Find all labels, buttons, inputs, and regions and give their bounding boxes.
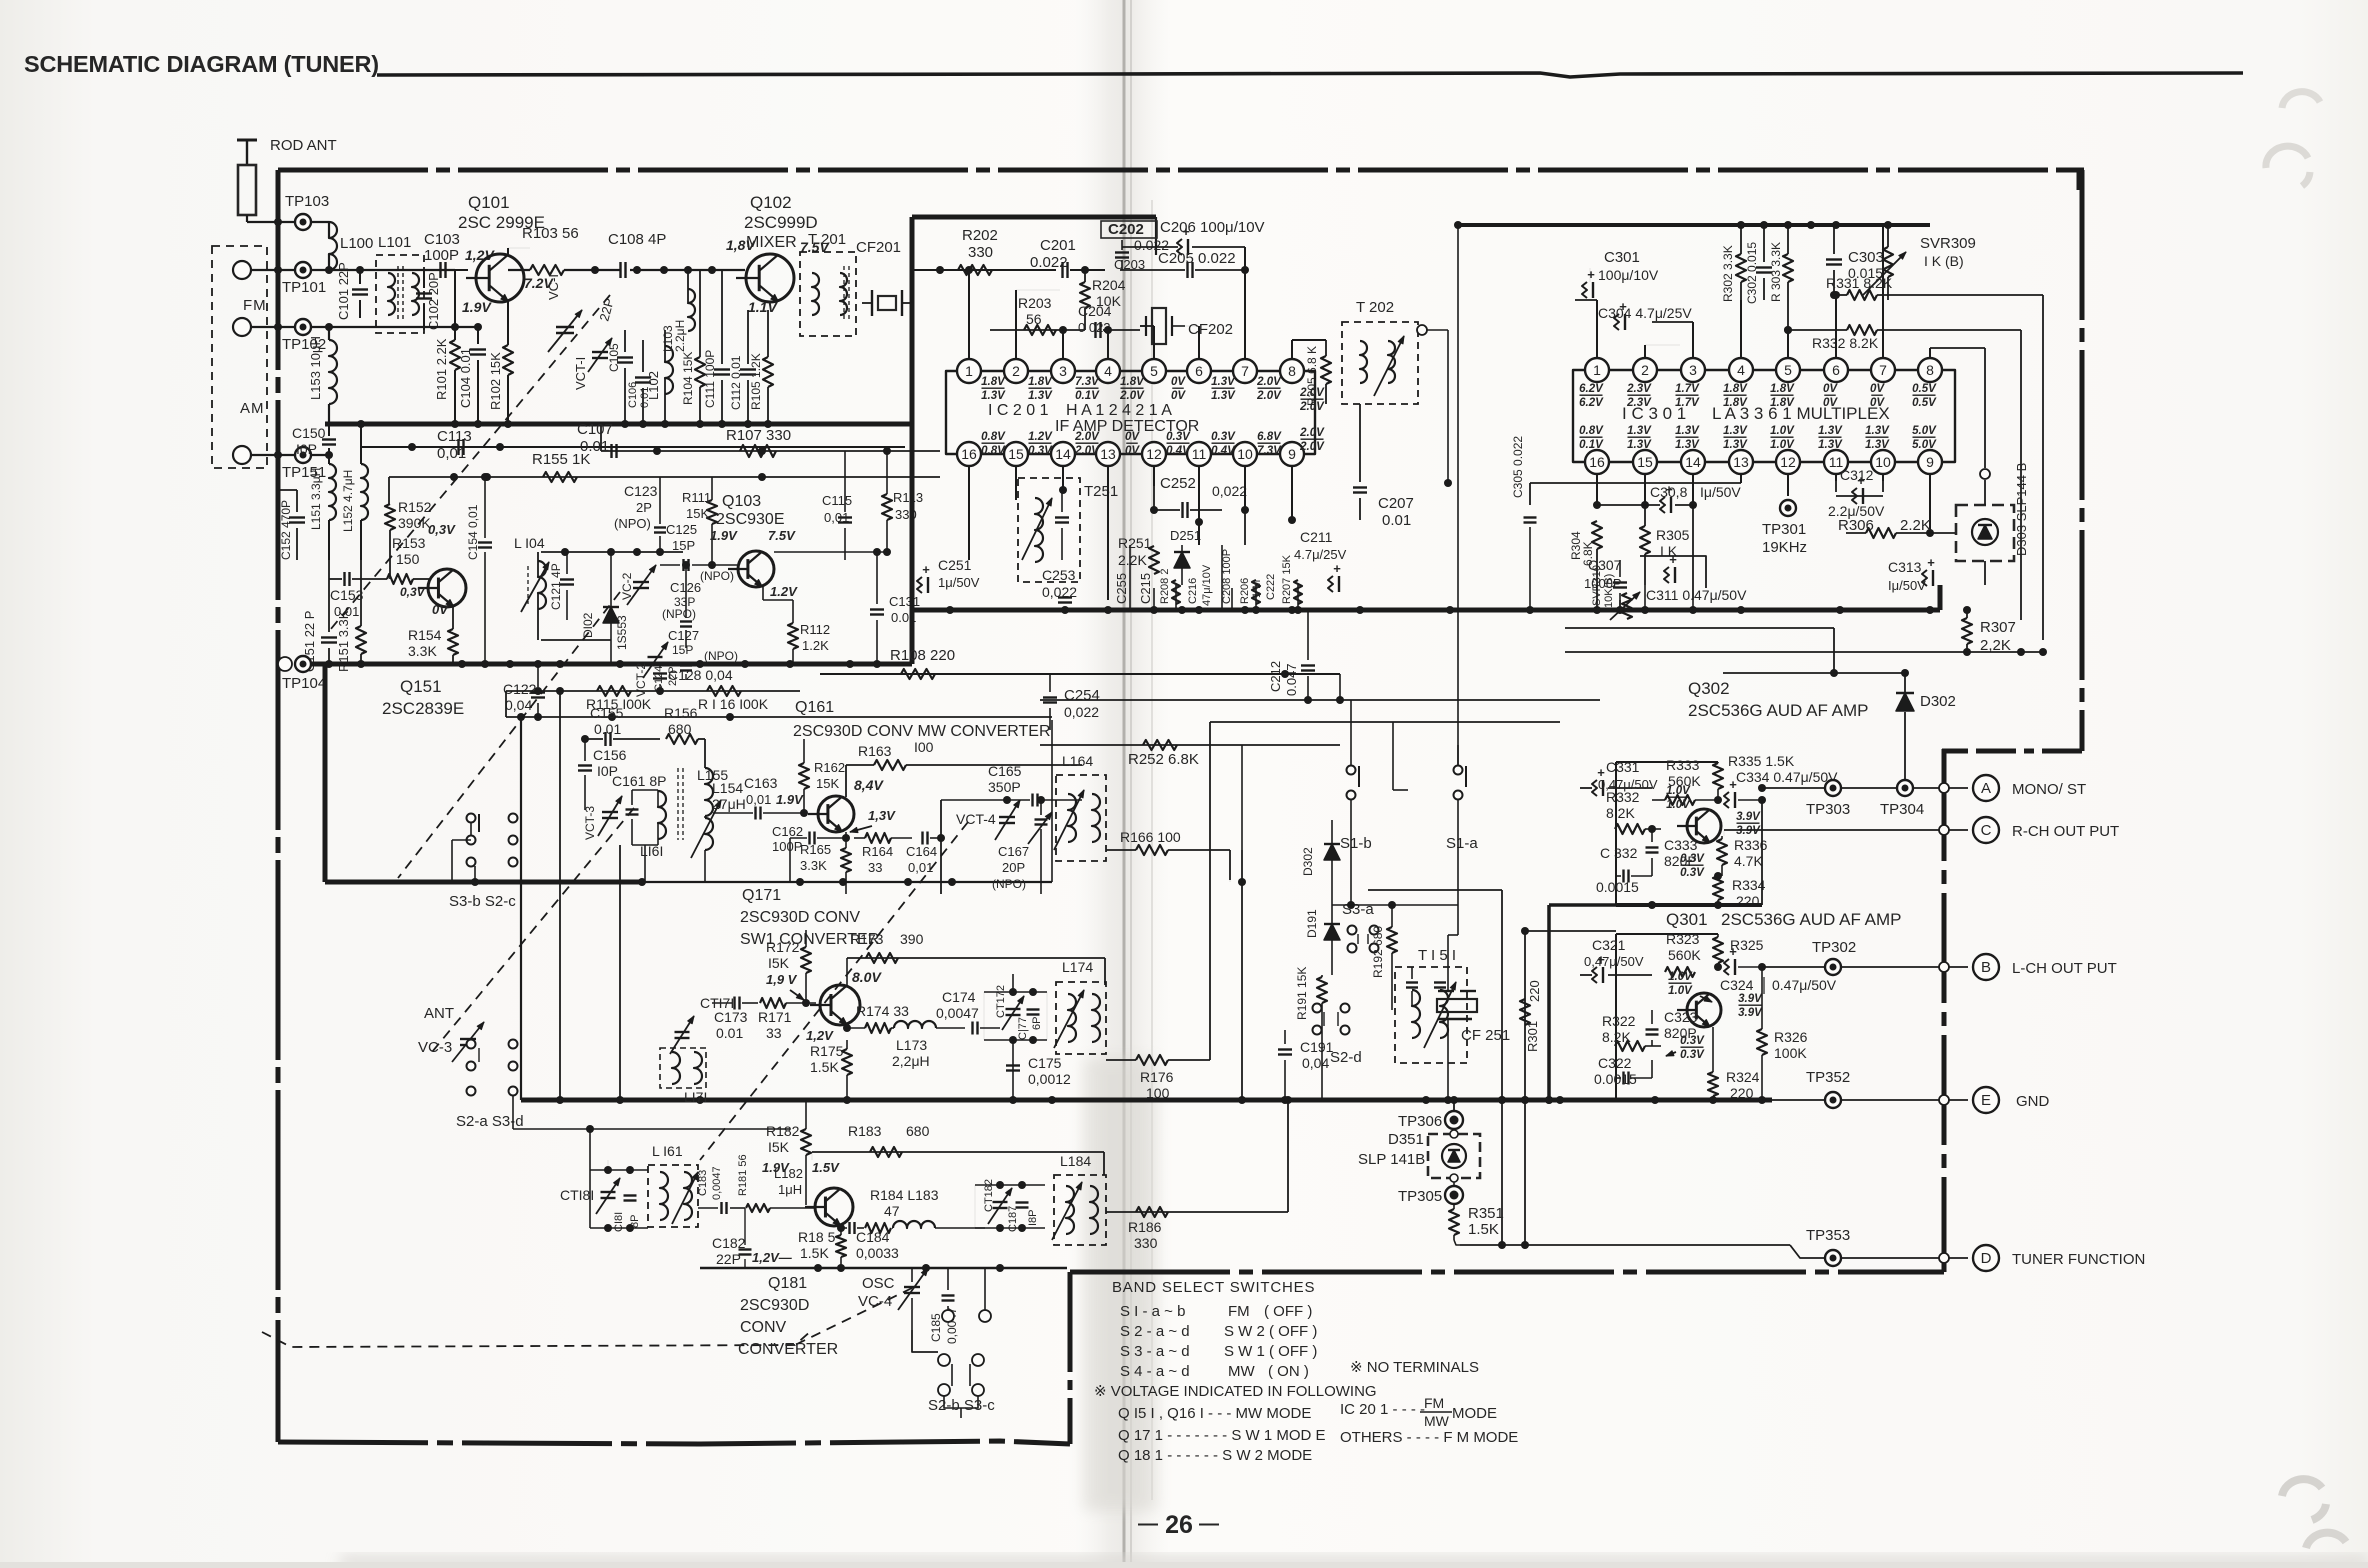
IC201 pin 4 xyxy=(1096,359,1120,383)
svg-text:0.4V: 0.4V xyxy=(1166,445,1191,457)
resistor R307 2.2K xyxy=(1962,618,1972,644)
svg-text:D303 SLP144 B: D303 SLP144 B xyxy=(2014,463,2029,556)
resistor R164 33 xyxy=(865,833,891,843)
wire r202 to c201 xyxy=(1010,269,1056,271)
IC301 pin 2 xyxy=(1633,358,1657,382)
coil L161 xyxy=(658,791,666,839)
IC201 pin 8 xyxy=(1280,359,1304,383)
svg-text:R103 56: R103 56 xyxy=(522,225,579,242)
svg-text:2.0V: 2.0V xyxy=(1299,401,1325,413)
test point TP306 xyxy=(1445,1111,1463,1129)
svg-text:E: E xyxy=(1981,1092,1991,1109)
wire R108 line y674 xyxy=(820,673,1340,675)
T202 coil 2 xyxy=(1388,341,1395,383)
wire C line xyxy=(1724,829,1968,831)
svg-text:R102 15K: R102 15K xyxy=(488,352,503,410)
svg-text:1.5K: 1.5K xyxy=(1468,1221,1499,1238)
svg-text:0,3V: 0,3V xyxy=(400,585,426,599)
capacitor C205 0.022 xyxy=(1186,262,1188,278)
T251 coil xyxy=(1035,498,1043,562)
svg-text:C222: C222 xyxy=(1265,574,1277,600)
transformer L171 dashed box xyxy=(660,1048,706,1088)
trimmer VCT-2 xyxy=(648,656,663,658)
svg-text:6.8V: 6.8V xyxy=(1257,431,1282,443)
capacitor C184 0.0033 xyxy=(848,1222,850,1234)
svg-text:15: 15 xyxy=(1637,454,1653,470)
variable capacitor VC-1 xyxy=(556,326,574,328)
svg-text:LI6I: LI6I xyxy=(640,843,663,859)
resistor R336 4.7K xyxy=(1717,839,1727,865)
svg-text:C303: C303 xyxy=(1848,249,1884,266)
capacitor C312 2.2u/50V xyxy=(1836,495,1883,497)
svg-text:R323: R323 xyxy=(1666,931,1700,947)
svg-text:0,04: 0,04 xyxy=(505,697,532,713)
svg-text:C323: C323 xyxy=(1664,1009,1698,1025)
gang linkage dash horizontal xyxy=(262,1330,812,1347)
trimmer CT171 xyxy=(675,1031,690,1033)
wire q181 emitter down xyxy=(840,1228,842,1232)
capacitor C252 0.022 xyxy=(1181,502,1183,518)
resistor R322 8.2K xyxy=(1615,1041,1645,1051)
svg-text:AM: AM xyxy=(240,400,265,417)
svg-text:0V: 0V xyxy=(1823,397,1838,409)
transformer L164 dashed box xyxy=(1056,775,1106,861)
resistor R192 680 xyxy=(1387,927,1397,953)
svg-text:5: 5 xyxy=(1784,362,1792,378)
svg-text:1.3V: 1.3V xyxy=(1028,390,1053,402)
svg-text:0.3V: 0.3V xyxy=(1680,1035,1705,1047)
svg-text:330: 330 xyxy=(1134,1235,1158,1251)
svg-text:MW: MW xyxy=(1424,1413,1450,1429)
IC301 pin8 wire up xyxy=(1929,348,1931,358)
border right inner vertical x1944 xyxy=(1942,751,1947,1272)
svg-text:L-CH OUT PUT: L-CH OUT PUT xyxy=(2012,960,2117,977)
svg-text:C205 0.022: C205 0.022 xyxy=(1158,250,1236,267)
resistor R305 1K xyxy=(1640,526,1650,554)
IC201 pin 14 xyxy=(1051,442,1075,466)
svg-text:6.2V: 6.2V xyxy=(1579,383,1604,395)
svg-text:1: 1 xyxy=(1593,362,1601,378)
svg-text:1.8V: 1.8V xyxy=(1723,397,1748,409)
svg-text:0,04: 0,04 xyxy=(1302,1055,1329,1071)
svg-text:Q102: Q102 xyxy=(750,193,792,212)
svg-text:R351: R351 xyxy=(1468,1205,1504,1222)
svg-text:100: 100 xyxy=(1146,1085,1170,1101)
capacitor C207 0.01 xyxy=(1353,486,1367,488)
capacitor C321 0.47u/50V xyxy=(1592,967,1597,983)
svg-text:560K: 560K xyxy=(1668,947,1701,963)
svg-text:0.47μ/50V: 0.47μ/50V xyxy=(1772,977,1837,993)
svg-text:2: 2 xyxy=(1641,362,1649,378)
svg-text:C154 0,01: C154 0,01 xyxy=(466,504,480,560)
tank bottom rail xyxy=(541,639,611,641)
L181 primary xyxy=(660,1172,668,1220)
resistor R302 3.3K xyxy=(1736,254,1746,282)
capacitor C181 8P xyxy=(624,1194,637,1196)
svg-text:1,9 V: 1,9 V xyxy=(766,972,798,987)
svg-text:TP306: TP306 xyxy=(1398,1113,1442,1130)
svg-text:※ VOLTAGE INDICATED IN FOLL: ※ VOLTAGE INDICATED IN FOLLOWING xyxy=(1094,1383,1377,1400)
svg-text:R335 1.5K: R335 1.5K xyxy=(1728,753,1795,769)
svg-text:R176: R176 xyxy=(1140,1069,1174,1085)
svg-text:0.8V: 0.8V xyxy=(981,431,1006,443)
svg-text:D191: D191 xyxy=(1305,909,1319,938)
resistor R185 1.5K xyxy=(836,1235,846,1257)
svg-text:C212: C212 xyxy=(1268,661,1283,692)
cluster rails q181 xyxy=(975,1184,1045,1186)
capacitor C161 8P xyxy=(626,808,639,810)
svg-text:7.3V: 7.3V xyxy=(1075,376,1100,388)
resistor R207 15K xyxy=(1294,580,1302,604)
wire y490 left xyxy=(278,489,297,491)
IC201 pin8 wire xyxy=(1291,340,1293,359)
rod antenna xyxy=(237,139,257,142)
wire D351 to TP305 xyxy=(1453,1182,1455,1186)
wire TP103 to L100 xyxy=(312,221,329,223)
capacitor C164 0.01 xyxy=(921,832,923,845)
svg-text:R332 8.2K: R332 8.2K xyxy=(1812,335,1879,351)
svg-text:13: 13 xyxy=(1733,454,1749,470)
L184 primary xyxy=(1066,1186,1074,1234)
transistor Q103 xyxy=(738,551,774,587)
svg-text:+: + xyxy=(1729,944,1737,959)
node x595 xyxy=(591,266,599,274)
svg-text:L152 4.7μH: L152 4.7μH xyxy=(341,470,355,532)
coil L155 xyxy=(705,768,713,816)
capacitor C126 33P xyxy=(680,620,692,622)
diode D191 xyxy=(1324,924,1340,940)
svg-text:27μH: 27μH xyxy=(712,796,746,812)
svg-text:0,022: 0,022 xyxy=(1042,584,1077,600)
transformer T251 dashed box xyxy=(1018,478,1080,582)
crystal filter CF202 xyxy=(1152,308,1166,344)
wire ct181 feed xyxy=(607,1160,609,1170)
svg-text:1 M: 1 M xyxy=(1251,580,1263,598)
switch S3-b xyxy=(467,814,476,823)
svg-text:1,3V: 1,3V xyxy=(868,808,896,823)
svg-text:R207 15K: R207 15K xyxy=(1281,554,1293,604)
T202 output circle xyxy=(1417,325,1427,335)
wire y1152 r183 xyxy=(812,1151,1104,1153)
resistor R104 15K xyxy=(695,357,705,387)
T201 core xyxy=(843,266,845,322)
svg-text:10: 10 xyxy=(1875,454,1891,470)
svg-text:2.3V: 2.3V xyxy=(1626,383,1652,395)
svg-text:C150: C150 xyxy=(292,425,326,441)
svg-text:100μ/10V: 100μ/10V xyxy=(1598,267,1659,283)
svg-text:14: 14 xyxy=(1055,446,1071,462)
wire y477 xyxy=(389,476,940,478)
svg-text:1.9V: 1.9V xyxy=(776,792,804,807)
svg-text:VCT-3: VCT-3 xyxy=(583,806,597,840)
border corner top-right xyxy=(2077,168,2082,190)
svg-text:0.5V: 0.5V xyxy=(1912,397,1937,409)
resistor R163 100 xyxy=(874,760,906,770)
svg-text:C251: C251 xyxy=(938,557,972,573)
svg-text:R184 L183: R184 L183 xyxy=(870,1187,939,1203)
svg-text:1.0V: 1.0V xyxy=(1770,425,1795,437)
svg-text:C106: C106 xyxy=(627,382,639,408)
resistor R102 15K xyxy=(503,345,513,375)
wire x1230 down xyxy=(1229,880,1231,882)
svg-text:0.047: 0.047 xyxy=(1284,663,1299,696)
svg-text:CF202: CF202 xyxy=(1188,321,1233,338)
svg-text:2SC930D CONV MW CONVERTER: 2SC930D CONV MW CONVERTER xyxy=(793,723,1051,740)
resistor R101 2.2K xyxy=(450,340,460,370)
resistor R153 150 xyxy=(387,574,413,584)
resistor R171 33 xyxy=(760,998,786,1008)
svg-text:1.3V: 1.3V xyxy=(1865,425,1890,437)
capacitor C125 15P xyxy=(682,559,684,571)
border step y751 xyxy=(1944,749,2082,754)
diode D251 xyxy=(1174,552,1190,568)
svg-text:2SC930D CONV: 2SC930D CONV xyxy=(740,909,860,926)
svg-text:2SC930D: 2SC930D xyxy=(740,1297,809,1314)
IC301 pin 11 xyxy=(1824,450,1848,474)
resistor R152 390K xyxy=(385,504,395,530)
transformer L174 dashed box xyxy=(1056,982,1106,1054)
svg-text:C165: C165 xyxy=(988,763,1022,779)
svg-text:R111: R111 xyxy=(682,490,711,505)
svg-text:C 332: C 332 xyxy=(1600,845,1638,861)
bus riser x912 xyxy=(910,217,915,664)
bus y1100 left risers xyxy=(520,717,522,1100)
inductor L102 xyxy=(665,346,673,394)
svg-text:C211: C211 xyxy=(1300,529,1333,545)
svg-text:2SC536G AUD AF AMP: 2SC536G AUD AF AMP xyxy=(1688,701,1868,720)
wire x1210 xyxy=(1209,722,1211,1060)
stage frame Q151 xyxy=(323,664,328,882)
resistor R206 1M xyxy=(1252,580,1260,604)
svg-text:390: 390 xyxy=(900,931,924,947)
svg-text:C191: C191 xyxy=(1300,1039,1334,1055)
svg-text:0,01: 0,01 xyxy=(908,860,933,875)
svg-text:CT182: CT182 xyxy=(983,1179,995,1212)
svg-text:1.0V: 1.0V xyxy=(1668,971,1693,983)
svg-text:L174: L174 xyxy=(1062,959,1093,975)
svg-text:R166 100: R166 100 xyxy=(1120,829,1181,845)
capacitor C173 0.01 xyxy=(733,997,735,1010)
svg-text:8: 8 xyxy=(1926,362,1934,378)
capacitor C305 0.022 xyxy=(1524,516,1537,518)
svg-text:I8P: I8P xyxy=(1027,1209,1039,1226)
svg-text:C104 0.01: C104 0.01 xyxy=(458,348,473,408)
svg-text:1.9V: 1.9V xyxy=(462,299,492,315)
resistor R202 330 xyxy=(958,265,992,275)
svg-text:C313: C313 xyxy=(1888,559,1922,575)
svg-text:R206: R206 xyxy=(1239,578,1251,604)
svg-text:22P: 22P xyxy=(716,1251,741,1267)
IC201 pin2 wire up xyxy=(1015,290,1017,359)
svg-text:CT172: CT172 xyxy=(995,985,1007,1018)
capacitor C122 0.04 xyxy=(531,691,545,693)
svg-text:C163: C163 xyxy=(744,775,778,791)
resistor R325 xyxy=(1713,937,1723,963)
wire D303 bottom xyxy=(1984,561,1986,585)
svg-text:C216: C216 xyxy=(1187,578,1199,604)
coil L183 xyxy=(893,1221,935,1228)
svg-text:R191 15K: R191 15K xyxy=(1295,967,1309,1020)
svg-text:6: 6 xyxy=(1195,363,1203,379)
IC301 body xyxy=(1573,370,1955,462)
svg-text:R175: R175 xyxy=(810,1043,844,1059)
wire ct181 to q181 xyxy=(698,1207,718,1209)
svg-text:C30,8: C30,8 xyxy=(1650,484,1688,500)
resistor R154 3.3K xyxy=(448,629,458,655)
capacitor C313 1u/50V xyxy=(1922,570,1927,586)
svg-text:1.2V: 1.2V xyxy=(770,584,798,599)
transistor Q102 MIXER xyxy=(746,254,794,302)
IC201 pin10 wire down xyxy=(1244,466,1246,510)
svg-text:0V: 0V xyxy=(1870,383,1885,395)
svg-text:0V: 0V xyxy=(1125,445,1140,457)
capacitor C152 470P xyxy=(289,516,305,518)
IC301 pin13 wire down xyxy=(1740,474,1742,483)
svg-text:Q301: Q301 xyxy=(1666,910,1708,929)
svg-text:C103: C103 xyxy=(424,231,460,248)
wire AM xyxy=(251,454,294,456)
svg-text:1.2K: 1.2K xyxy=(802,638,829,653)
svg-text:H A 1 2 4 2 1 A: H A 1 2 4 2 1 A xyxy=(1066,402,1172,419)
svg-text:2.2K: 2.2K xyxy=(1900,517,1931,534)
IC301 pin 5 xyxy=(1776,358,1800,382)
svg-text:CTI7I: CTI7I xyxy=(700,995,734,1011)
main bus y424 xyxy=(325,422,912,427)
svg-text:1.3V: 1.3V xyxy=(1211,376,1236,388)
svg-text:2P: 2P xyxy=(636,500,652,515)
L164 secondary xyxy=(1092,794,1100,842)
test point TP101 xyxy=(295,262,311,278)
svg-text:1.3V: 1.3V xyxy=(1627,439,1652,451)
resistor R191 15K xyxy=(1317,977,1327,1003)
svg-text:C115: C115 xyxy=(822,493,852,508)
svg-text:0.1V: 0.1V xyxy=(1579,439,1604,451)
svg-text:C152 470P: C152 470P xyxy=(279,500,293,560)
IC201 body xyxy=(946,371,1315,454)
mpx power rail y225 xyxy=(1458,223,1930,227)
svg-text:6.2V: 6.2V xyxy=(1579,397,1604,409)
capacitor C111 100P xyxy=(714,368,730,370)
svg-text:R183: R183 xyxy=(848,1123,882,1139)
svg-text:C162: C162 xyxy=(772,824,803,839)
wire C216 to bus xyxy=(1221,545,1223,610)
svg-text:R192 680: R192 680 xyxy=(1371,926,1385,978)
wire TP306 stem xyxy=(1453,1100,1455,1110)
svg-text:R302 3.3K: R302 3.3K xyxy=(1721,245,1735,302)
svg-text:BAND SELECT SWITCHES: BAND SELECT SWITCHES xyxy=(1112,1279,1315,1296)
IC201 pin 9 xyxy=(1280,442,1304,466)
svg-text:1.8V: 1.8V xyxy=(981,376,1006,388)
svg-text:+: + xyxy=(1587,267,1595,282)
wire FM1 xyxy=(251,269,294,271)
switch contact osc b xyxy=(979,1310,991,1322)
svg-text:C304 4.7μ/25V: C304 4.7μ/25V xyxy=(1598,305,1692,321)
svg-text:C125: C125 xyxy=(666,522,697,537)
resistor R116 100K xyxy=(707,686,741,696)
svg-text:220: 220 xyxy=(1730,1085,1754,1101)
svg-text:1,2V: 1,2V xyxy=(806,1028,834,1043)
box C311 xyxy=(1640,556,1706,588)
wire y270 ic201 xyxy=(912,269,1010,271)
svg-text:1.2V: 1.2V xyxy=(1028,431,1053,443)
svg-text:CONV: CONV xyxy=(740,1319,787,1336)
svg-text:0.022: 0.022 xyxy=(1030,254,1068,271)
T201 primary xyxy=(812,273,819,315)
svg-text:C167: C167 xyxy=(998,844,1029,859)
svg-text:0V: 0V xyxy=(1823,383,1838,395)
connector E xyxy=(1939,1095,1949,1105)
svg-text:680: 680 xyxy=(668,721,692,737)
svg-text:T 201: T 201 xyxy=(808,231,846,248)
capacitor C175 0.0012 xyxy=(1006,1064,1020,1066)
IC301 pin 14 xyxy=(1681,450,1705,474)
test point TP303 xyxy=(1825,780,1841,796)
svg-text:0.01: 0.01 xyxy=(1382,512,1411,529)
svg-text:R171: R171 xyxy=(758,1009,792,1025)
border top (dash-dot) xyxy=(278,168,2082,173)
capacitor C185 0.0047 xyxy=(942,1294,955,1296)
test point TP304 xyxy=(1897,780,1913,796)
svg-text:R204: R204 xyxy=(1092,277,1126,293)
svg-text:Q151: Q151 xyxy=(400,677,442,696)
svg-text:R322: R322 xyxy=(1602,1013,1636,1029)
svg-text:T I 5 I: T I 5 I xyxy=(1418,947,1456,964)
svg-text:8.2K: 8.2K xyxy=(1602,1029,1631,1045)
svg-text:C204: C204 xyxy=(1078,303,1112,319)
svg-text:R333: R333 xyxy=(1666,757,1700,773)
svg-text:C|77: C|77 xyxy=(1017,1017,1029,1040)
svg-text:1.9V: 1.9V xyxy=(710,528,738,543)
svg-text:C312: C312 xyxy=(1840,467,1874,483)
svg-text:C215: C215 xyxy=(1138,573,1153,604)
capacitor C151 22P xyxy=(321,636,337,638)
svg-text:C254: C254 xyxy=(1064,687,1100,704)
svg-text:L182: L182 xyxy=(774,1166,803,1181)
svg-text:16: 16 xyxy=(961,446,977,462)
svg-text:100P: 100P xyxy=(424,247,459,264)
svg-text:SCHEMATIC DIAGRAM (TUNER): SCHEMATIC DIAGRAM (TUNER) xyxy=(24,51,379,77)
svg-text:C123: C123 xyxy=(624,483,658,499)
IC301 pin 8 xyxy=(1918,358,1942,382)
capacitor C102 20P xyxy=(416,292,432,294)
svg-text:2.3V: 2.3V xyxy=(1626,397,1652,409)
svg-text:C161 8P: C161 8P xyxy=(612,773,666,789)
svg-text:+: + xyxy=(922,562,930,577)
capacitor C107 0.01 xyxy=(610,444,612,458)
svg-text:3.9V: 3.9V xyxy=(1738,1007,1763,1019)
main bus y610 xyxy=(912,608,1940,613)
bus y610 riser right xyxy=(1938,585,1943,610)
svg-text:C105: C105 xyxy=(607,343,621,372)
resistor R156 680 xyxy=(666,734,698,744)
wire A line xyxy=(1762,787,1968,789)
wire under-bus y447 xyxy=(360,446,905,448)
svg-text:0,0047: 0,0047 xyxy=(936,1005,979,1021)
resistor R182 15K xyxy=(801,1129,811,1155)
svg-text:0,01: 0,01 xyxy=(824,510,849,525)
wire R173 line xyxy=(847,957,1105,959)
border left (dash-dot) xyxy=(276,170,281,1442)
svg-text:8,2K: 8,2K xyxy=(1606,805,1635,821)
svg-text:I5K: I5K xyxy=(768,955,790,971)
svg-text:L154: L154 xyxy=(712,780,743,796)
svg-text:5.0V: 5.0V xyxy=(1912,439,1937,451)
svg-text:C121 4P: C121 4P xyxy=(549,563,563,610)
svg-text:I C 2 0 1: I C 2 0 1 xyxy=(988,402,1049,419)
svg-text:C128 0,04: C128 0,04 xyxy=(668,667,733,683)
svg-text:R202: R202 xyxy=(962,227,998,244)
svg-text:—: — xyxy=(1138,1513,1158,1535)
